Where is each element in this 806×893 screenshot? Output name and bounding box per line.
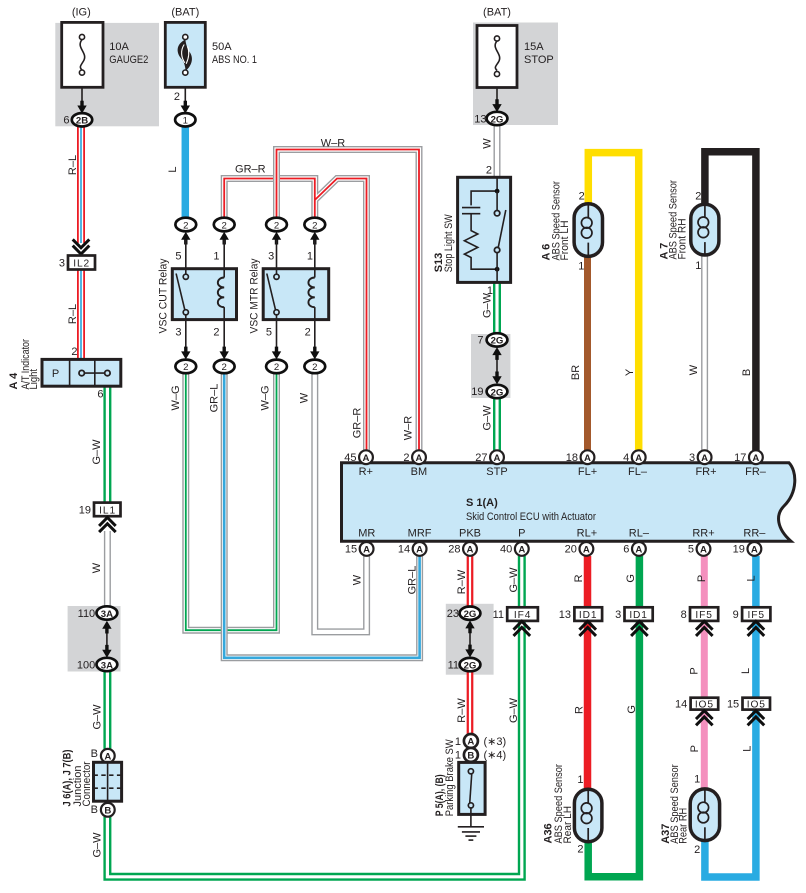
svg-text:2: 2 <box>403 452 409 464</box>
svg-text:Stop Light SW: Stop Light SW <box>443 214 455 272</box>
svg-text:(BAT): (BAT) <box>171 7 199 19</box>
wire R-W ECU PKB to 23 2G <box>467 556 474 607</box>
VSC MTR Relay <box>248 258 328 333</box>
svg-text:(IG): (IG) <box>72 7 91 19</box>
wire W loop MTR pin2 to ECU MR <box>315 373 367 632</box>
svg-text:L: L <box>742 746 754 752</box>
svg-text:G–W: G–W <box>481 405 493 431</box>
svg-text:2: 2 <box>486 165 492 177</box>
svg-text:A 4: A 4 <box>8 372 20 390</box>
svg-text:2: 2 <box>222 220 227 231</box>
svg-text:A: A <box>635 545 642 556</box>
svg-text:A: A <box>584 453 591 464</box>
svg-text:P: P <box>696 575 708 582</box>
stop light switch S13 <box>433 165 511 298</box>
svg-text:13: 13 <box>559 609 571 621</box>
svg-text:4: 4 <box>623 452 629 464</box>
gray block connector 2G parking <box>446 604 494 675</box>
wire R ECU RL+ to sensor A36 <box>584 556 592 789</box>
svg-text:G–W: G–W <box>508 567 520 593</box>
svg-text:110: 110 <box>78 608 96 620</box>
connector 2G pin 13 <box>474 112 507 126</box>
svg-text:W: W <box>481 138 493 149</box>
svg-text:STOP: STOP <box>524 54 554 66</box>
svg-text:A: A <box>518 545 525 556</box>
connector 2B pin 6 <box>63 113 92 127</box>
svg-text:15: 15 <box>727 698 739 710</box>
svg-text:2: 2 <box>274 362 279 373</box>
connector IF4 pin 11 <box>493 607 538 636</box>
svg-text:FL+: FL+ <box>578 466 597 478</box>
svg-text:19: 19 <box>733 544 745 556</box>
svg-text:IL1: IL1 <box>99 505 116 516</box>
svg-text:A: A <box>104 751 111 762</box>
svg-text:3A: 3A <box>101 660 113 671</box>
svg-text:19: 19 <box>471 386 483 398</box>
ABS speed sensor A37 rear RH <box>660 764 720 856</box>
svg-text:IF4: IF4 <box>514 610 531 621</box>
connector chevron IL1 male <box>99 518 116 533</box>
svg-text:45: 45 <box>344 452 356 464</box>
svg-text:A: A <box>494 453 501 464</box>
svg-text:17: 17 <box>734 452 746 464</box>
svg-text:2: 2 <box>183 362 188 373</box>
svg-text:R: R <box>574 706 586 714</box>
wire G-W 100 3A to junction A <box>103 671 111 749</box>
svg-text:1: 1 <box>307 251 313 263</box>
connector IL2 pin 3 <box>59 256 95 270</box>
wire W-G loop CUT pin3 to MTR pin5 <box>186 373 277 630</box>
svg-text:R–L: R–L <box>67 304 79 324</box>
A/T indicator light A4 <box>8 339 121 401</box>
svg-text:15A: 15A <box>524 41 544 53</box>
svg-text:8: 8 <box>681 609 687 621</box>
wire W fuse STOP to S13 <box>494 125 501 177</box>
skid control ECU S1(A) <box>342 463 795 541</box>
svg-text:GR–L: GR–L <box>209 384 221 413</box>
svg-text:1: 1 <box>695 260 701 272</box>
connector 2G pin 11 <box>448 658 481 672</box>
svg-text:A: A <box>752 453 759 464</box>
svg-text:2: 2 <box>222 362 227 373</box>
wire Y sensor A6 to ECU FL- <box>588 153 638 451</box>
svg-text:13: 13 <box>474 113 486 125</box>
svg-text:11: 11 <box>448 659 459 671</box>
svg-text:IF5: IF5 <box>695 610 712 621</box>
svg-text:A: A <box>751 545 758 556</box>
svg-text:A: A <box>363 545 370 556</box>
connector IO5 pin 14 <box>675 698 718 726</box>
svg-text:RL+: RL+ <box>577 527 598 539</box>
svg-text:1: 1 <box>578 260 584 272</box>
svg-text:MRF: MRF <box>408 527 432 539</box>
svg-text:A: A <box>635 453 642 464</box>
svg-text:R–W: R–W <box>456 569 468 594</box>
svg-text:5: 5 <box>175 251 181 263</box>
svg-text:5: 5 <box>688 544 694 556</box>
svg-text:2B: 2B <box>76 116 88 127</box>
svg-text:50A: 50A <box>212 41 232 53</box>
wire GR-R relay pins to ECU R+ <box>224 179 366 451</box>
svg-text:W: W <box>91 562 103 573</box>
connector IF5 pin 9 <box>733 607 771 636</box>
svg-text:R+: R+ <box>359 466 373 478</box>
svg-text:A: A <box>416 453 423 464</box>
svg-text:G–W: G–W <box>508 697 520 723</box>
svg-text:GR–R: GR–R <box>235 164 266 176</box>
svg-text:2: 2 <box>305 326 311 338</box>
double arrow 3A <box>102 621 111 658</box>
gray block connector 3A <box>68 606 121 672</box>
svg-text:2: 2 <box>579 190 585 202</box>
svg-text:14: 14 <box>675 698 687 710</box>
svg-text:MR: MR <box>358 527 375 539</box>
svg-text:2: 2 <box>312 362 317 373</box>
svg-text:FR+: FR+ <box>695 466 716 478</box>
svg-text:2G: 2G <box>464 660 477 671</box>
connector chevron IL2 male <box>73 239 90 254</box>
svg-text:A: A <box>700 545 707 556</box>
svg-text:G–W: G–W <box>91 439 103 465</box>
svg-text:RR–: RR– <box>743 527 766 539</box>
svg-text:W–G: W–G <box>260 385 272 410</box>
svg-text:W–R: W–R <box>403 416 415 441</box>
wire P ECU RR+ to sensor A37 <box>701 556 708 789</box>
svg-text:GAUGE2: GAUGE2 <box>109 54 148 66</box>
svg-text:Light: Light <box>28 369 40 390</box>
svg-text:23: 23 <box>447 608 459 620</box>
wire B sensor A7 to ECU FR- <box>705 152 756 451</box>
svg-text:Skid Control ECU with Actuator: Skid Control ECU with Actuator <box>466 511 596 523</box>
svg-text:FR–: FR– <box>745 466 767 478</box>
svg-text:27: 27 <box>475 452 487 464</box>
svg-text:STP: STP <box>486 466 507 478</box>
wire R-W 11 2G to parking brake SW <box>467 671 474 734</box>
svg-text:2: 2 <box>174 91 180 103</box>
svg-text:G–W: G–W <box>92 832 104 858</box>
svg-text:B: B <box>467 751 474 762</box>
svg-text:P: P <box>689 745 701 752</box>
svg-text:PKB: PKB <box>459 527 481 539</box>
svg-text:6: 6 <box>97 389 103 401</box>
wire G-W A4 to IL1 <box>103 386 111 502</box>
ABS speed sensor A6 front LH <box>541 181 603 273</box>
svg-text:A: A <box>701 453 708 464</box>
svg-text:P: P <box>688 667 700 674</box>
svg-text:BM: BM <box>411 466 428 478</box>
svg-text:2G: 2G <box>491 114 504 125</box>
svg-text:5: 5 <box>266 326 272 338</box>
svg-text:2: 2 <box>312 220 317 231</box>
wire G-W junction B along bottom to IF4 and pin P40 <box>107 556 521 877</box>
svg-text:1: 1 <box>213 251 219 263</box>
svg-text:3: 3 <box>615 609 621 621</box>
wire G-W S13 to 7 2G <box>493 282 501 333</box>
svg-text:VSC CUT Relay: VSC CUT Relay <box>157 258 169 333</box>
fuse 50A ABS NO.1 <box>165 7 257 114</box>
svg-text:28: 28 <box>448 544 460 556</box>
svg-text:40: 40 <box>500 544 512 556</box>
svg-text:ID1: ID1 <box>629 610 648 621</box>
ABS speed sensor A36 rear LH <box>542 764 602 856</box>
parking brake SW P5 <box>434 734 506 840</box>
gray block fuse IG <box>55 23 159 126</box>
svg-text:P: P <box>52 368 59 380</box>
svg-text:14: 14 <box>398 544 410 556</box>
wire G sensor A36 to ECU RL- <box>588 556 639 877</box>
connector IF5 pin 8 <box>681 607 719 636</box>
ECU bottom pin circles <box>345 542 761 556</box>
connector ID1 pin 3 <box>615 607 653 636</box>
connector IL1 pin 19 <box>79 503 121 517</box>
wire R-L IL2 to A4 <box>77 270 85 360</box>
svg-text:2: 2 <box>213 326 219 338</box>
wire BR sensor A6 to ECU FL+ <box>584 256 591 450</box>
svg-text:ID1: ID1 <box>579 610 598 621</box>
svg-text:R–L: R–L <box>67 155 79 175</box>
connector 2G pin 7 <box>477 333 507 347</box>
relay pin number labels top <box>175 251 313 263</box>
connector IO5 pin 15 <box>727 698 770 726</box>
wire L fuse ABS to VSC CUT relay pin5 <box>182 127 190 218</box>
svg-text:6: 6 <box>63 115 69 127</box>
svg-text:3: 3 <box>175 326 181 338</box>
svg-text:A: A <box>583 545 590 556</box>
svg-text:W: W <box>298 392 310 403</box>
svg-text:20: 20 <box>565 544 577 556</box>
svg-text:S 1(A): S 1(A) <box>466 497 498 509</box>
svg-text:19: 19 <box>79 504 91 516</box>
svg-text:R: R <box>573 574 585 582</box>
gray block fuse STOP <box>473 23 558 126</box>
svg-text:A: A <box>467 545 474 556</box>
svg-text:L: L <box>745 575 757 581</box>
svg-text:B: B <box>741 369 753 376</box>
relay connector ovals bottom row <box>175 360 325 374</box>
relay pin number labels bottom <box>175 326 310 338</box>
svg-text:9: 9 <box>733 609 739 621</box>
svg-text:18: 18 <box>566 452 578 464</box>
svg-text:B: B <box>104 805 111 816</box>
svg-text:G: G <box>625 574 637 583</box>
svg-text:2: 2 <box>695 191 701 203</box>
svg-text:A: A <box>467 737 474 748</box>
svg-text:2G: 2G <box>464 609 477 620</box>
wire GR-L loop CUT pin2 to ECU MRF <box>224 373 419 658</box>
svg-text:GR–L: GR–L <box>406 566 418 595</box>
relay connector ovals top row <box>175 218 325 232</box>
svg-text:W–R: W–R <box>321 138 346 150</box>
svg-text:1: 1 <box>694 773 700 785</box>
svg-text:RL–: RL– <box>629 527 650 539</box>
fuse 15A STOP <box>477 7 554 113</box>
svg-text:3: 3 <box>268 251 274 263</box>
gray block connector 2G stop <box>471 334 510 398</box>
svg-text:Front RH: Front RH <box>677 218 689 259</box>
svg-text:A: A <box>363 453 370 464</box>
svg-text:Rear LH: Rear LH <box>562 806 574 844</box>
svg-text:W: W <box>688 364 700 375</box>
svg-text:100: 100 <box>77 659 95 671</box>
svg-text:Rear RH: Rear RH <box>677 808 689 844</box>
svg-text:(BAT): (BAT) <box>483 7 511 19</box>
svg-text:2: 2 <box>577 843 583 855</box>
svg-text:GR–R: GR–R <box>351 408 363 439</box>
svg-text:Front LH: Front LH <box>559 220 571 260</box>
svg-text:2G: 2G <box>491 387 504 398</box>
connector 1 <box>175 113 195 126</box>
svg-text:IO5: IO5 <box>747 699 766 710</box>
connector 3A pin 110 <box>78 606 118 620</box>
svg-text:(∗4): (∗4) <box>484 750 507 762</box>
ABS speed sensor A7 front RH <box>658 180 718 272</box>
svg-text:3: 3 <box>59 257 65 269</box>
wire L sensor A37 to ECU RR- <box>705 556 756 877</box>
wire W IL1 to 110 3A <box>104 531 111 606</box>
svg-text:VSC MTR Relay: VSC MTR Relay <box>248 258 260 333</box>
svg-text:P: P <box>518 527 525 539</box>
svg-text:ABS NO. 1: ABS NO. 1 <box>212 54 257 66</box>
wire W sensor A7 to ECU FR+ <box>701 255 708 451</box>
svg-text:G–W: G–W <box>92 704 104 730</box>
svg-text:1: 1 <box>577 774 583 786</box>
wire G-W 19 2G to ECU STP <box>493 398 501 450</box>
ECU top pin circles <box>344 450 763 464</box>
wire W-R relay pin3 to ECU BM <box>277 150 420 451</box>
svg-text:IF5: IF5 <box>747 610 764 621</box>
double arrow 2G parking <box>465 620 474 657</box>
fuse 10A GAUGE2 <box>62 7 149 114</box>
relay stub arrows top <box>181 232 319 269</box>
svg-text:FL–: FL– <box>628 466 648 478</box>
svg-text:G–W: G–W <box>481 292 493 318</box>
svg-text:Parking Brake SW: Parking Brake SW <box>444 739 456 817</box>
svg-text:B: B <box>91 748 98 760</box>
connector 2G pin 19 <box>471 385 507 399</box>
VSC CUT Relay <box>157 258 236 333</box>
svg-text:RR+: RR+ <box>692 527 714 539</box>
svg-text:2: 2 <box>694 844 700 856</box>
svg-text:G: G <box>626 705 638 714</box>
svg-text:2: 2 <box>274 220 279 231</box>
svg-text:A: A <box>416 545 423 556</box>
wire R-L fuse to IL2 <box>77 127 85 244</box>
double arrow 2G stop <box>492 347 501 384</box>
svg-text:1: 1 <box>183 116 188 127</box>
svg-text:2: 2 <box>183 220 188 231</box>
svg-text:6: 6 <box>623 544 629 556</box>
svg-text:W–G: W–G <box>170 385 182 410</box>
svg-text:3: 3 <box>689 452 695 464</box>
svg-text:10A: 10A <box>109 41 129 53</box>
connector 2G pin 23 <box>447 607 481 621</box>
svg-text:7: 7 <box>477 335 483 347</box>
svg-text:(∗3): (∗3) <box>484 736 507 748</box>
svg-text:BR: BR <box>570 365 582 380</box>
svg-text:Y: Y <box>624 368 636 376</box>
svg-text:15: 15 <box>345 544 357 556</box>
svg-text:2: 2 <box>71 346 77 358</box>
svg-text:11: 11 <box>493 609 504 621</box>
svg-text:3A: 3A <box>101 609 113 620</box>
svg-text:IL2: IL2 <box>73 259 90 270</box>
svg-text:Connector: Connector <box>81 761 93 806</box>
svg-text:L: L <box>167 166 179 172</box>
svg-text:R–W: R–W <box>456 698 468 723</box>
relay stub arrows bottom <box>181 320 319 360</box>
connector 3A pin 100 <box>77 658 117 672</box>
svg-text:W: W <box>351 574 363 585</box>
svg-text:2G: 2G <box>491 336 504 347</box>
junction connector J6(A) J7(B) <box>61 748 121 817</box>
svg-text:L: L <box>740 668 752 674</box>
connector ID1 pin 13 <box>559 607 602 636</box>
